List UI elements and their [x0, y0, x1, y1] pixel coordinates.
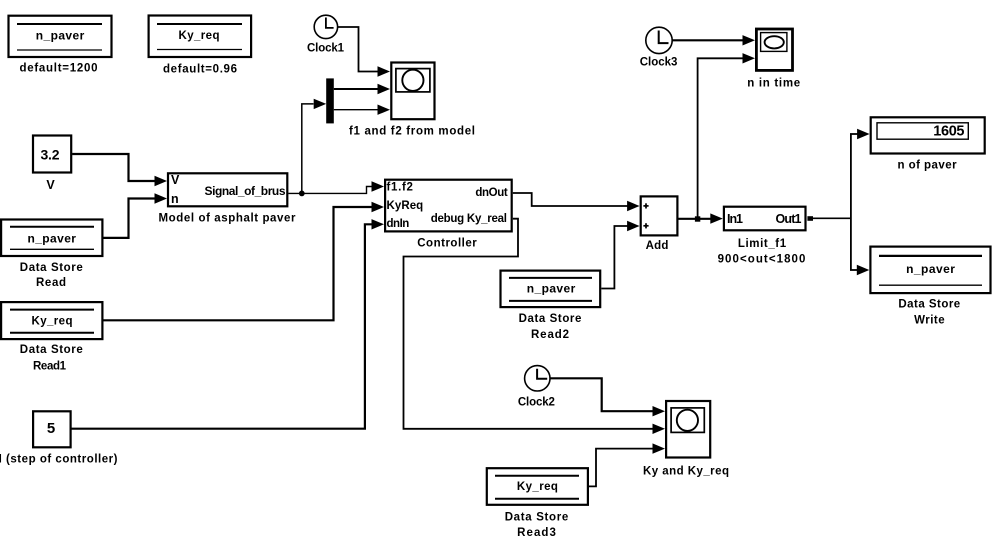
wire controller debug Ky_real to scope KyKyreq input2: [404, 219, 654, 429]
svg-text:Controller: Controller: [417, 238, 477, 250]
svg-text:Add: Add: [646, 240, 669, 252]
data store read DSRead3 Ky_req: [487, 468, 588, 539]
scope f1 and f2 from model: [349, 63, 475, 138]
svg-text:Ky_req: Ky_req: [32, 316, 73, 328]
svg-text:N (step of controller): N (step of controller): [0, 454, 118, 466]
svg-text:KyReq: KyReq: [387, 200, 424, 212]
svg-text:In1: In1: [727, 212, 743, 226]
data store read DSRead n_paver: [1, 220, 102, 289]
svg-text:Data Store: Data Store: [20, 262, 83, 274]
svg-text:Ky and Ky_req: Ky and Ky_req: [643, 466, 729, 478]
svg-text:f1.f2: f1.f2: [387, 182, 413, 194]
svg-text:f1 and f2 from model: f1 and f2 from model: [349, 126, 475, 138]
svg-text:n of paver: n of paver: [897, 160, 957, 172]
svg-text:Clock3: Clock3: [640, 57, 678, 69]
clock Clock2: [518, 366, 555, 409]
svg-text:Read3: Read3: [517, 527, 556, 539]
subsystem Limit_f1: [718, 207, 806, 266]
wire model output to f1.f2 with junction: [288, 187, 372, 194]
svg-text:n: n: [171, 192, 179, 206]
svg-text:n_paver: n_paver: [906, 262, 955, 276]
wire Clock2 to scope KyKyreq input1: [550, 378, 653, 411]
sum block Add: [641, 196, 678, 252]
svg-text:debug Ky_real: debug Ky_real: [431, 213, 507, 225]
svg-text:1605: 1605: [933, 124, 964, 140]
svg-text:Model of asphalt paver: Model of asphalt paver: [159, 213, 297, 225]
wire DSRead3 to scope KyKyreq input3: [589, 449, 653, 487]
display n of paver: [871, 117, 985, 171]
wire junction to demux: [302, 104, 314, 193]
svg-text:Clock1: Clock1: [307, 43, 345, 55]
wire DSRead to model n: [103, 199, 155, 238]
svg-text:Ky_req: Ky_req: [179, 30, 220, 42]
scope n in time: [747, 29, 800, 90]
clock Clock1: [307, 15, 345, 54]
data store read DSRead2 n_paver: [501, 271, 601, 341]
wire Out1 to branch: [813, 217, 851, 219]
data store write n_paver: [870, 247, 990, 327]
svg-text:V: V: [171, 173, 180, 187]
constant 3.2: [33, 136, 71, 193]
svg-text:dnOut: dnOut: [475, 187, 507, 199]
wire DSRead2 to Add input2: [601, 226, 628, 289]
svg-text:V: V: [46, 178, 55, 192]
svg-text:n_paver: n_paver: [527, 282, 576, 296]
wire junction up to scope n-in-time input2: [698, 58, 743, 217]
subsystem Model of asphalt paver: [159, 173, 297, 225]
node junction Add output: [695, 216, 700, 221]
wire 5 to controller dnIn: [71, 224, 372, 428]
wire branch vertical to display and write: [850, 134, 852, 270]
svg-text:n_paver: n_paver: [27, 232, 76, 246]
clock Clock3: [640, 27, 678, 68]
wire Clock1 to scope1: [338, 27, 378, 72]
svg-text:Write: Write: [914, 315, 945, 327]
svg-text:Signal_of_brus: Signal_of_brus: [205, 184, 286, 198]
constant 5: [0, 411, 118, 465]
svg-text:Read2: Read2: [531, 329, 569, 341]
data store memory DSM2 Ky_req: [149, 16, 252, 76]
svg-text:Data Store: Data Store: [898, 299, 960, 311]
svg-text:n_paver: n_paver: [36, 29, 85, 43]
scope Ky and Ky_req: [643, 401, 729, 478]
data store memory DSM1 n_paver: [9, 16, 112, 75]
svg-text:default=1200: default=1200: [20, 63, 98, 75]
svg-text:default=0.96: default=0.96: [163, 64, 237, 76]
wire DSRead1 to controller KyReq: [103, 207, 372, 320]
subsystem Controller: [385, 180, 512, 250]
svg-text:Out1: Out1: [776, 212, 802, 226]
data store read DSRead1 Ky_req: [1, 302, 102, 372]
svg-text:Ky_req: Ky_req: [517, 481, 558, 493]
wire 3.2 to model V: [72, 154, 155, 181]
svg-text:Data Store: Data Store: [505, 512, 569, 524]
svg-text:Data Store: Data Store: [519, 313, 582, 325]
wire controller dnOut to Add input1: [513, 193, 628, 206]
wire into data store write: [850, 269, 858, 271]
wire Add output to Limit_f1 In1: [679, 218, 712, 220]
svg-text:Read1: Read1: [33, 361, 67, 373]
demux: [326, 78, 334, 123]
wire demux out2: [334, 109, 378, 111]
node junction model output: [299, 191, 305, 197]
node square dot at Out1: [807, 216, 813, 221]
svg-text:Data Store: Data Store: [20, 344, 83, 356]
svg-text:Read: Read: [36, 277, 66, 289]
wire into display: [850, 133, 858, 135]
wire Clock3 to scope n-in-time input1: [672, 39, 743, 41]
svg-text:5: 5: [47, 420, 55, 437]
svg-text:3.2: 3.2: [41, 147, 60, 163]
svg-text:dnIn: dnIn: [387, 218, 410, 230]
svg-text:n in time: n in time: [747, 78, 800, 90]
svg-text:900<out<1800: 900<out<1800: [718, 254, 806, 266]
svg-text:Clock2: Clock2: [518, 397, 555, 409]
svg-text:Limit_f1: Limit_f1: [738, 238, 787, 250]
wire demux out1: [334, 88, 378, 90]
